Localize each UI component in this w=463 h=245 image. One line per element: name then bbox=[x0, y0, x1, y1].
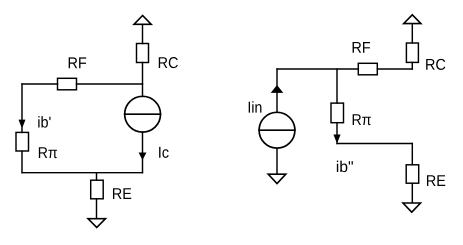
label RC (left) bbox=[159, 57, 178, 68]
label RE (right) bbox=[427, 175, 445, 186]
label ib" bbox=[337, 161, 353, 173]
wire base rail to RF (left horizontal) bbox=[22, 83, 58, 85]
wire VCC to RC (left) bbox=[142, 24, 144, 43]
wire RF to RC corner (right) bbox=[377, 68, 412, 70]
resistor RE (left) bbox=[91, 180, 104, 199]
wire corner up to RC (right) bbox=[411, 62, 413, 69]
ground (right) bbox=[403, 203, 421, 212]
resistor RC (left) bbox=[137, 44, 149, 63]
label Rπ (right) bbox=[353, 114, 371, 125]
arrow Ic (current direction) bbox=[139, 153, 147, 161]
wire lower rail (right) bbox=[337, 143, 412, 145]
wire Iin to ground bbox=[276, 148, 278, 174]
label ib' bbox=[38, 116, 50, 128]
arrow Iin (current direction) bbox=[271, 85, 284, 93]
power supply arrow VCC (left) bbox=[134, 16, 151, 25]
wire top rail to RF (right) bbox=[277, 68, 358, 70]
wire RF to RC column bbox=[77, 83, 143, 85]
resistor Rpi (right) bbox=[331, 103, 344, 123]
resistor RF (left) bbox=[58, 78, 77, 90]
wire bottom rail (left) bbox=[22, 172, 143, 174]
label RE (left) bbox=[113, 188, 131, 199]
label RF (left) bbox=[69, 57, 87, 68]
wire top rail junction down to Rpi (right) bbox=[336, 69, 338, 103]
current source Iin bbox=[259, 112, 295, 148]
wire left branch down bbox=[21, 84, 23, 132]
current source (left, controlled) bbox=[125, 96, 161, 132]
wire Rpi to bottom rail bbox=[21, 151, 23, 173]
resistor Rpi (left) bbox=[16, 132, 29, 151]
wire RE to ground (left) bbox=[96, 199, 98, 219]
power supply arrow VCC (right) bbox=[404, 15, 421, 24]
label Iin bbox=[249, 101, 262, 112]
wire bottom rail to RE bbox=[96, 173, 98, 181]
resistor RE (right) bbox=[406, 165, 419, 183]
arrow ib' (current direction) bbox=[19, 120, 26, 129]
label RF (right) bbox=[353, 42, 371, 53]
arrow ib'' (current direction) bbox=[333, 135, 340, 144]
wire lower rail corner down to RE (right) bbox=[411, 144, 413, 165]
wire Rpi down to lower rail bbox=[336, 123, 338, 144]
wire Iin up to top rail bbox=[276, 69, 278, 112]
wire RE to ground (right) bbox=[411, 183, 413, 203]
label Rπ (left) bbox=[39, 147, 57, 158]
wire RC to current source (left) bbox=[142, 63, 144, 97]
ground below Iin bbox=[268, 174, 286, 183]
resistor RF (right) bbox=[358, 63, 377, 75]
ground (left) bbox=[88, 219, 106, 228]
label Ic bbox=[159, 147, 169, 158]
resistor RC (right) bbox=[406, 43, 418, 62]
label RC (right) bbox=[426, 59, 445, 70]
wire current source to bottom rail bbox=[142, 132, 144, 173]
wire RC to VCC (right) bbox=[411, 24, 413, 43]
